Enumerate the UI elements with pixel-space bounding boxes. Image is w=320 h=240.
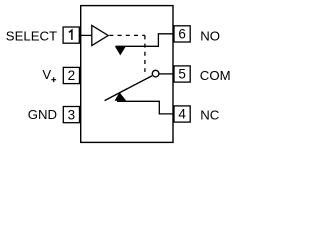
pin 3 box (63, 107, 79, 123)
op-amp buffer U1A (92, 25, 108, 45)
dashed control line vertical segment (144, 35, 146, 72)
pin 1 box (63, 27, 79, 43)
pin 1 number (69, 30, 72, 40)
svg-text:NC: NC (200, 108, 220, 123)
svg-text:6: 6 (178, 27, 186, 42)
dashed control line from buffer to switch (109, 34, 144, 36)
NO contact arrow (115, 46, 126, 55)
wire pin4 NC (117, 101, 174, 114)
switch lever from COM (105, 76, 153, 101)
svg-text:SELECT: SELECT (6, 29, 57, 44)
svg-text:V: V (42, 67, 51, 82)
NC contact arrow (115, 92, 127, 101)
pin 5 box (174, 66, 190, 82)
svg-text:3: 3 (68, 107, 76, 122)
svg-text:NO: NO (200, 28, 220, 43)
IC body U1 (81, 6, 173, 143)
pin 2 box (63, 67, 79, 83)
wire pin6 NO (116, 34, 175, 47)
svg-text:COM: COM (200, 68, 231, 83)
wire COM to pin5 (159, 73, 174, 75)
pin 6 box (174, 26, 190, 42)
svg-text:GND: GND (28, 107, 57, 122)
svg-text:5: 5 (178, 67, 186, 82)
wire pin1 to buffer input (79, 34, 92, 36)
pin 4 box (174, 106, 190, 122)
label V+ (42, 67, 56, 82)
svg-text:2: 2 (68, 68, 76, 83)
svg-text:4: 4 (178, 107, 186, 122)
COM pole circle (152, 70, 159, 77)
